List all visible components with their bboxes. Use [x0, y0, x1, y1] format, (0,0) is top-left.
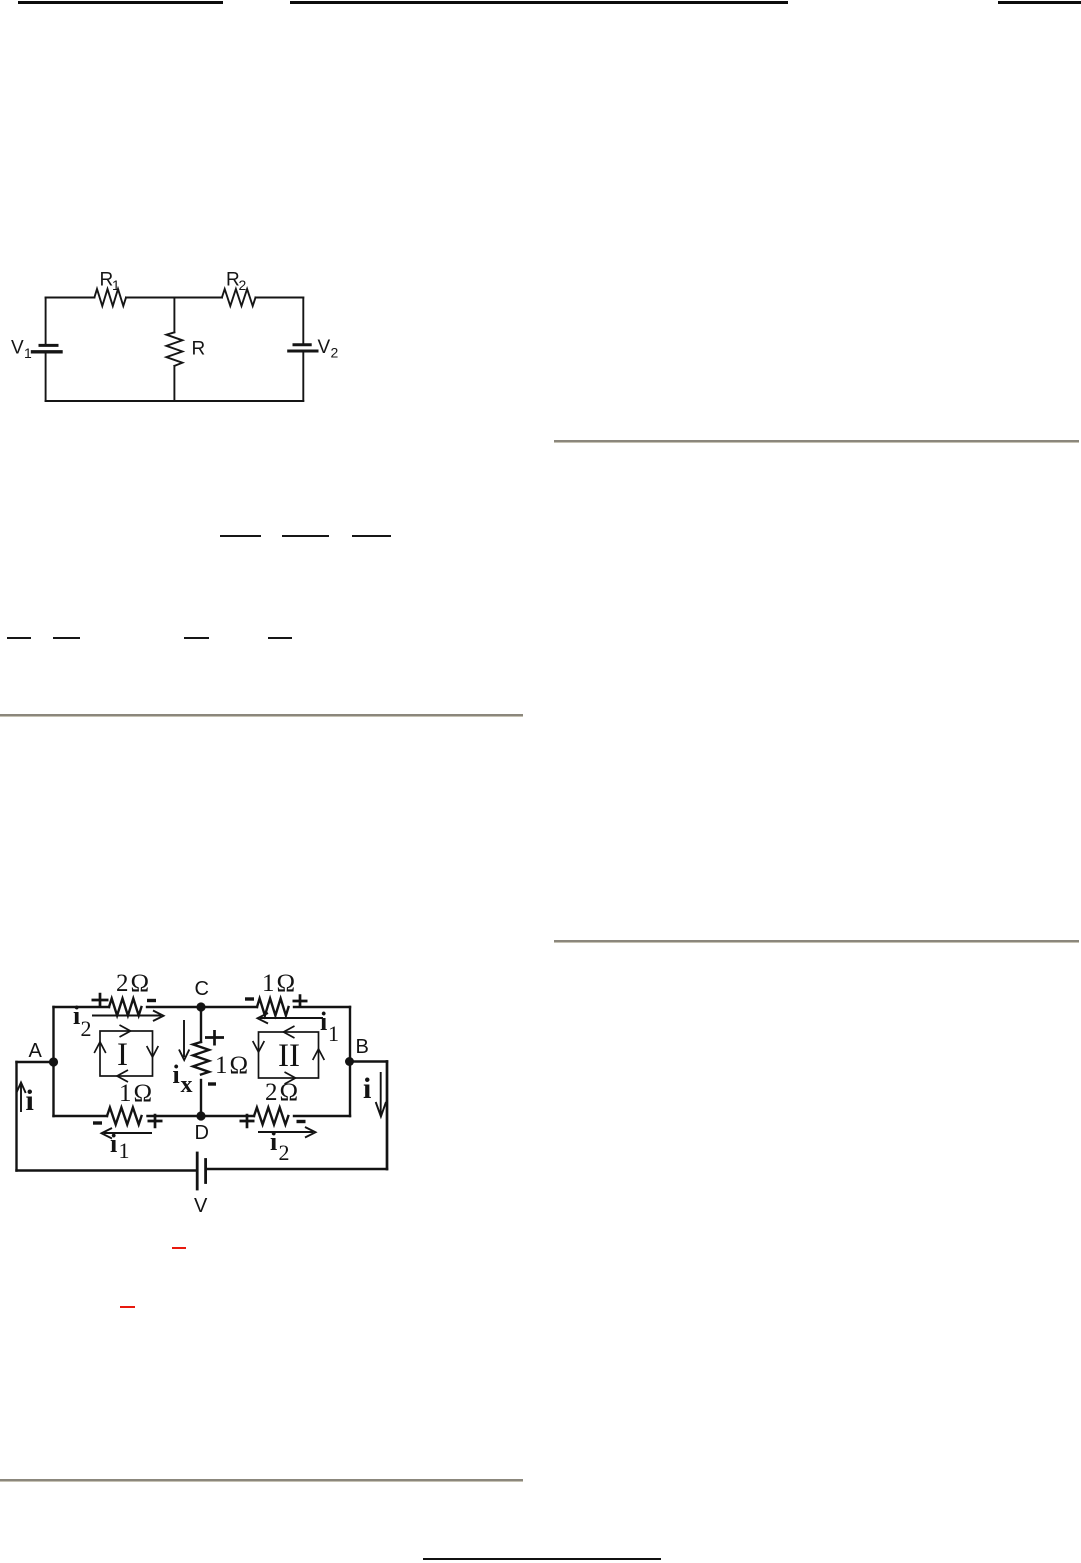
svg-text:B: B — [356, 1036, 369, 1058]
fraction bar row2 c — [184, 637, 209, 639]
svg-text:i: i — [363, 1072, 371, 1105]
svg-text:1: 1 — [112, 277, 120, 293]
current arrow i outer-left — [16, 1083, 25, 1113]
footer rule — [423, 1558, 661, 1560]
svg-text:x: x — [181, 1072, 193, 1098]
svg-text:1: 1 — [328, 1021, 339, 1046]
svg-text:II: II — [278, 1038, 300, 1074]
fraction bar row2 b — [53, 637, 80, 639]
fraction bar row2 a — [7, 637, 31, 639]
wire: bottom rail middle segment through node D — [148, 1115, 255, 1117]
wire: node A stub to outer left — [17, 1061, 54, 1063]
svg-text:R: R — [192, 339, 206, 360]
grey separator left middle — [0, 714, 523, 717]
svg-text:D: D — [195, 1122, 209, 1144]
current arrow i2 top-left — [92, 1011, 164, 1022]
wire: circuit1 top-right segment R2 to V2 branch — [256, 297, 304, 299]
svg-text:2Ω: 2Ω — [116, 970, 151, 997]
red underline 1 — [172, 1247, 186, 1249]
svg-text:1: 1 — [119, 1138, 130, 1163]
wire: node B stub to outer right — [350, 1060, 387, 1062]
svg-text:C: C — [195, 978, 209, 1000]
svg-text:i: i — [26, 1084, 34, 1117]
polarity - bottom-right — [297, 1120, 306, 1123]
battery V — [197, 1153, 205, 1189]
header rule segment 3 — [998, 1, 1081, 4]
current arrow ix middle — [179, 1020, 189, 1060]
svg-text:2: 2 — [279, 1140, 290, 1165]
header rule segment 2 — [290, 1, 788, 4]
svg-text:2: 2 — [239, 277, 247, 293]
svg-text:V: V — [318, 337, 331, 358]
svg-text:1Ω: 1Ω — [262, 970, 297, 997]
svg-text:i: i — [73, 1001, 80, 1030]
wire: top rail right segment to corner — [294, 1006, 350, 1008]
polarity + bottom-right — [240, 1114, 255, 1128]
polarity + bottom-left — [148, 1114, 163, 1128]
current arrow i2 bottom-right — [258, 1127, 316, 1138]
svg-text:i: i — [110, 1129, 117, 1158]
svg-text:i: i — [270, 1127, 277, 1156]
polarity - middle — [208, 1082, 216, 1085]
resistor 2ohm bottom-right — [254, 1108, 288, 1125]
polarity - bottom-left — [93, 1121, 102, 1124]
wire: node C to middle resistor — [200, 1007, 202, 1042]
wire: circuit1 top-left segment V1 to R1 — [46, 297, 95, 299]
svg-text:1Ω: 1Ω — [119, 1080, 154, 1107]
grey separator right lower — [554, 940, 1079, 943]
resistor 1ohm middle — [193, 1042, 209, 1075]
polarity - top-right — [245, 997, 254, 1000]
node C junction dot — [196, 1002, 205, 1011]
svg-text:2: 2 — [81, 1016, 92, 1041]
fraction bar row1 c — [352, 535, 391, 537]
wire: outer bottom rail left of battery — [17, 1169, 197, 1171]
wire: bottom rail right segment — [294, 1115, 350, 1117]
wire: left branch upper (V1 top lead) — [45, 298, 47, 345]
wire: inner right vertical through node B — [349, 1007, 351, 1116]
battery V1 — [33, 345, 62, 401]
svg-text:i: i — [320, 1007, 327, 1036]
resistor 1ohm top-right — [257, 999, 289, 1016]
fraction bar row1 a — [220, 535, 261, 537]
wire: middle branch lower (R to bottom wire) — [173, 366, 175, 401]
svg-text:I: I — [117, 1037, 128, 1073]
header rule segment 1 — [18, 1, 223, 4]
wire: top rail middle segment through node C — [147, 1006, 257, 1008]
resistor 2ohm top-left — [109, 999, 141, 1016]
svg-text:i: i — [173, 1060, 180, 1089]
resistor R2 — [222, 289, 256, 306]
svg-text:1: 1 — [24, 345, 32, 361]
mesh loop I — [94, 1025, 158, 1082]
wire: middle branch upper (node to R) — [173, 298, 175, 333]
svg-text:A: A — [29, 1040, 43, 1062]
resistor R — [166, 332, 182, 366]
current arrow i1 top-right — [258, 1013, 324, 1024]
fraction bar row2 d — [268, 637, 292, 639]
wire: outer bottom rail right of battery — [207, 1168, 387, 1170]
polarity + middle — [205, 1030, 224, 1046]
wire: right branch upper (V2 top lead) — [302, 298, 304, 345]
polarity + top-left — [92, 993, 109, 1007]
grey separator right upper — [554, 440, 1079, 443]
polarity + top-right — [293, 994, 308, 1007]
mesh loop II — [253, 1026, 325, 1084]
svg-text:2Ω: 2Ω — [265, 1079, 300, 1106]
battery V2 — [289, 345, 317, 401]
node B junction dot — [345, 1057, 354, 1066]
resistor 1ohm bottom-left — [107, 1108, 142, 1125]
wire: circuit1 top-middle segment R1 to node, node to R2 — [126, 297, 222, 299]
svg-text:V: V — [194, 1195, 208, 1217]
wire: top rail left segment — [54, 1006, 110, 1008]
polarity - top-left — [147, 999, 156, 1002]
current arrow i outer-right — [376, 1072, 386, 1117]
svg-text:1Ω: 1Ω — [215, 1052, 250, 1079]
wire: inner left vertical through node A — [52, 1007, 54, 1116]
svg-text:V: V — [11, 338, 24, 359]
fraction bar row1 b — [282, 535, 329, 537]
node D junction dot — [196, 1111, 205, 1120]
wire: middle resistor to node D — [200, 1080, 202, 1116]
current arrow i1 bottom-left — [102, 1128, 153, 1139]
wire: bottom rail left segment — [54, 1115, 108, 1117]
svg-text:2: 2 — [331, 345, 339, 361]
node A junction dot — [49, 1057, 58, 1066]
grey separator bottom left — [0, 1479, 523, 1482]
red underline 2 — [120, 1306, 135, 1308]
wire: circuit1 bottom rail — [46, 400, 304, 402]
wire: outer right vertical — [386, 1062, 389, 1170]
wire: outer left vertical — [15, 1062, 17, 1171]
resistor R1 — [94, 289, 126, 306]
